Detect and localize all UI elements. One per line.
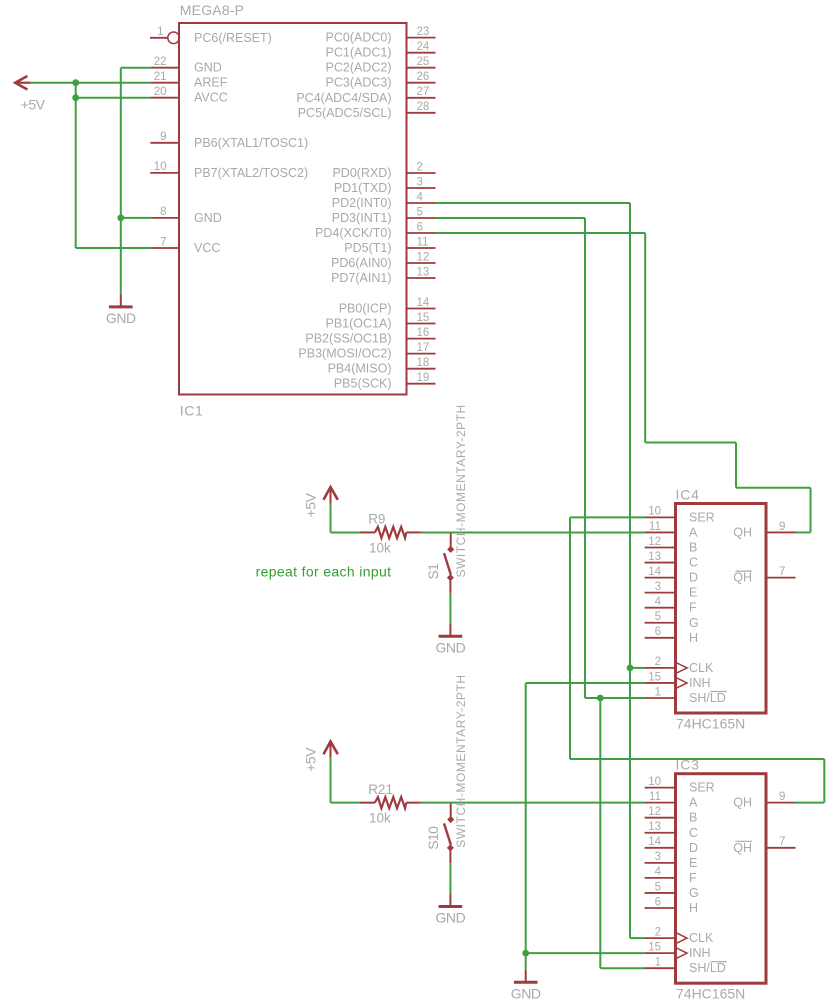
svg-text:+5V: +5V	[21, 96, 46, 112]
svg-text:3: 3	[655, 851, 661, 863]
svg-text:SWITCH-MOMENTARY-2PTH: SWITCH-MOMENTARY-2PTH	[454, 674, 468, 847]
svg-text:R21: R21	[368, 782, 393, 797]
svg-text:PD4(XCK/T0): PD4(XCK/T0)	[315, 226, 391, 240]
svg-text:GND: GND	[106, 310, 136, 326]
svg-text:A: A	[689, 525, 698, 539]
svg-text:PC2(ADC2): PC2(ADC2)	[326, 61, 392, 75]
svg-text:7: 7	[160, 236, 166, 248]
svg-text:PD3(INT1): PD3(INT1)	[332, 211, 392, 225]
svg-text:20: 20	[154, 86, 167, 98]
svg-text:CLK: CLK	[689, 661, 714, 675]
svg-text:9: 9	[160, 131, 166, 143]
svg-text:SER: SER	[689, 510, 715, 524]
svg-text:F: F	[689, 871, 697, 885]
svg-text:S10: S10	[425, 826, 441, 850]
svg-text:10: 10	[154, 161, 167, 173]
svg-text:10: 10	[648, 506, 661, 518]
svg-text:12: 12	[648, 806, 661, 818]
svg-text:1: 1	[655, 957, 661, 969]
svg-text:18: 18	[417, 357, 430, 369]
svg-text:11: 11	[417, 236, 429, 248]
svg-text:D: D	[689, 841, 698, 855]
svg-text:4: 4	[417, 191, 424, 203]
svg-text:3: 3	[417, 176, 423, 188]
svg-text:13: 13	[648, 551, 661, 563]
svg-text:15: 15	[648, 671, 661, 683]
svg-text:GND: GND	[435, 910, 465, 926]
svg-text:INH: INH	[689, 676, 711, 690]
svg-text:17: 17	[417, 342, 430, 354]
svg-text:PC3(ADC3): PC3(ADC3)	[326, 76, 392, 90]
svg-text:28: 28	[417, 101, 430, 113]
svg-text:SH/LD: SH/LD	[689, 691, 726, 705]
svg-text:14: 14	[648, 836, 661, 848]
svg-text:C: C	[689, 556, 698, 570]
svg-text:PC6(/RESET): PC6(/RESET)	[194, 31, 272, 45]
svg-text:21: 21	[154, 71, 167, 83]
svg-text:27: 27	[417, 86, 430, 98]
svg-text:B: B	[689, 811, 697, 825]
svg-text:13: 13	[648, 821, 661, 833]
svg-text:11: 11	[649, 521, 661, 533]
svg-text:AREF: AREF	[194, 76, 228, 90]
svg-text:+5V: +5V	[303, 492, 319, 517]
svg-text:PD6(AIN0): PD6(AIN0)	[331, 256, 391, 270]
svg-text:5: 5	[417, 206, 423, 218]
svg-text:QH: QH	[733, 841, 752, 855]
svg-text:PC0(ADC0): PC0(ADC0)	[326, 31, 392, 45]
svg-text:QH: QH	[733, 796, 752, 810]
svg-text:PC4(ADC4/SDA): PC4(ADC4/SDA)	[296, 91, 391, 105]
svg-text:9: 9	[779, 791, 785, 803]
svg-text:PD2(INT0): PD2(INT0)	[332, 196, 392, 210]
svg-text:2: 2	[655, 926, 661, 938]
svg-text:G: G	[689, 616, 699, 630]
svg-text:R9: R9	[368, 512, 385, 527]
svg-text:QH: QH	[733, 571, 752, 585]
svg-text:PB6(XTAL1/TOSC1): PB6(XTAL1/TOSC1)	[194, 136, 308, 150]
svg-text:F: F	[689, 601, 697, 615]
svg-text:PB7(XTAL2/TOSC2): PB7(XTAL2/TOSC2)	[194, 166, 308, 180]
svg-text:6: 6	[417, 221, 423, 233]
svg-text:74HC165N: 74HC165N	[676, 716, 745, 732]
svg-text:15: 15	[417, 312, 430, 324]
svg-text:GND: GND	[511, 985, 541, 1001]
svg-text:B: B	[689, 541, 697, 555]
svg-text:25: 25	[417, 56, 430, 68]
svg-text:+5V: +5V	[303, 747, 319, 772]
svg-text:12: 12	[417, 251, 430, 263]
svg-text:PD1(TXD): PD1(TXD)	[334, 181, 392, 195]
svg-text:D: D	[689, 571, 698, 585]
svg-text:9: 9	[779, 521, 785, 533]
svg-text:SWITCH-MOMENTARY-2PTH: SWITCH-MOMENTARY-2PTH	[454, 404, 468, 577]
svg-text:1: 1	[655, 686, 661, 698]
svg-text:12: 12	[648, 536, 661, 548]
svg-text:2: 2	[417, 161, 423, 173]
svg-text:7: 7	[779, 836, 785, 848]
svg-text:6: 6	[655, 896, 661, 908]
svg-text:2: 2	[655, 656, 661, 668]
svg-text:PB3(MOSI/OC2): PB3(MOSI/OC2)	[298, 347, 391, 361]
svg-text:PB2(SS/OC1B): PB2(SS/OC1B)	[305, 332, 391, 346]
svg-text:1: 1	[157, 26, 163, 38]
svg-text:PB0(ICP): PB0(ICP)	[339, 302, 392, 316]
svg-text:10k: 10k	[369, 540, 391, 555]
svg-text:INH: INH	[689, 946, 711, 960]
svg-text:PD7(AIN1): PD7(AIN1)	[331, 271, 391, 285]
svg-text:GND: GND	[194, 211, 222, 225]
svg-text:13: 13	[417, 266, 430, 278]
svg-text:IC1: IC1	[180, 402, 204, 418]
svg-text:SER: SER	[689, 781, 715, 795]
svg-text:AVCC: AVCC	[194, 91, 228, 105]
svg-text:14: 14	[417, 297, 430, 309]
svg-text:SH/LD: SH/LD	[689, 961, 726, 975]
svg-text:PB1(OC1A): PB1(OC1A)	[326, 317, 392, 331]
svg-text:PC5(ADC5/SCL): PC5(ADC5/SCL)	[298, 106, 392, 120]
svg-text:4: 4	[655, 596, 662, 608]
svg-text:PB5(SCK): PB5(SCK)	[334, 377, 392, 391]
svg-text:7: 7	[779, 566, 785, 578]
svg-text:16: 16	[417, 327, 430, 339]
svg-text:19: 19	[417, 372, 430, 384]
svg-text:S1: S1	[425, 563, 441, 580]
svg-text:26: 26	[417, 71, 430, 83]
svg-text:C: C	[689, 826, 698, 840]
svg-text:24: 24	[417, 41, 430, 53]
svg-text:5: 5	[655, 611, 661, 623]
svg-text:GND: GND	[435, 639, 465, 655]
svg-text:5: 5	[655, 881, 661, 893]
svg-text:IC3: IC3	[676, 757, 700, 773]
svg-text:74HC165N: 74HC165N	[676, 986, 745, 1002]
svg-text:A: A	[689, 796, 698, 810]
svg-text:MEGA8-P: MEGA8-P	[180, 2, 244, 18]
svg-text:6: 6	[655, 626, 661, 638]
svg-text:15: 15	[648, 941, 661, 953]
svg-text:22: 22	[154, 56, 167, 68]
svg-text:CLK: CLK	[689, 931, 714, 945]
svg-text:23: 23	[417, 26, 430, 38]
svg-text:QH: QH	[733, 525, 752, 539]
svg-text:VCC: VCC	[194, 241, 220, 255]
svg-text:PD0(RXD): PD0(RXD)	[332, 166, 391, 180]
svg-text:repeat for each input: repeat for each input	[256, 564, 392, 580]
svg-text:11: 11	[649, 791, 661, 803]
svg-text:IC4: IC4	[676, 487, 700, 503]
svg-text:E: E	[689, 586, 697, 600]
svg-text:H: H	[689, 631, 698, 645]
svg-text:GND: GND	[194, 61, 222, 75]
svg-text:4: 4	[655, 866, 662, 878]
svg-text:E: E	[689, 856, 697, 870]
svg-text:8: 8	[160, 206, 166, 218]
svg-text:G: G	[689, 886, 699, 900]
svg-text:H: H	[689, 901, 698, 915]
svg-text:3: 3	[655, 581, 661, 593]
svg-text:PC1(ADC1): PC1(ADC1)	[326, 46, 392, 60]
svg-text:10: 10	[648, 776, 661, 788]
svg-text:PD5(T1): PD5(T1)	[344, 241, 391, 255]
svg-text:PB4(MISO): PB4(MISO)	[328, 362, 392, 376]
svg-text:10k: 10k	[369, 810, 391, 825]
svg-text:14: 14	[648, 566, 661, 578]
